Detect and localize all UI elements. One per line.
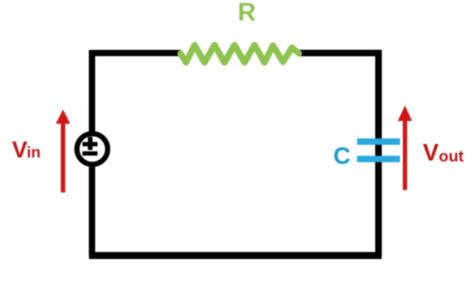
svg-text:V: V bbox=[423, 139, 439, 166]
label C bbox=[333, 143, 350, 170]
voltage source V1 (circle) bbox=[77, 134, 108, 165]
resistor R (green zigzag) bbox=[181, 45, 300, 63]
svg-text:C: C bbox=[333, 143, 350, 170]
wire top-right segment and right vertical bbox=[298, 53, 379, 256]
svg-text:in: in bbox=[27, 144, 41, 161]
svg-text:out: out bbox=[439, 148, 465, 165]
label Vin bbox=[12, 136, 41, 162]
Vin arrow (red, pointing up) bbox=[56, 110, 70, 193]
svg-text:R: R bbox=[238, 0, 256, 27]
capacitor C plates (cyan) bbox=[357, 138, 400, 162]
Vout arrow (red, pointing up) bbox=[398, 106, 412, 191]
wire bottom horizontal bbox=[89, 252, 382, 259]
wire left vertical (top corner to bottom corner) bbox=[92, 53, 181, 256]
svg-text:V: V bbox=[12, 136, 28, 162]
voltage source plus-minus symbol bbox=[83, 137, 98, 156]
label R bbox=[238, 0, 256, 27]
label Vout bbox=[423, 139, 465, 166]
